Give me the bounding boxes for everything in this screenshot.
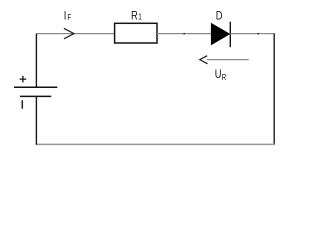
battery plus sign [20, 76, 27, 83]
wire: right vertical [273, 34, 275, 145]
battery negative plate [20, 95, 51, 97]
node dot on wire [257, 33, 259, 35]
wire: left vertical upper (corner to battery) [35, 34, 37, 88]
wire: bottom horizontal [36, 143, 275, 145]
wire: top-left horizontal segment (battery to resistor) [36, 33, 114, 35]
diode cathode bar [229, 22, 231, 48]
node dot on wire [183, 33, 185, 35]
wire: diode to top-right corner [230, 33, 274, 35]
battery minus sign (rotated, vertical bar) [21, 100, 23, 108]
wire: resistor to diode [157, 33, 211, 35]
svg-text:R: R [222, 72, 227, 82]
diode D triangle [211, 23, 230, 46]
svg-text:F: F [67, 12, 71, 22]
wire: left vertical lower (battery to bottom) [35, 96, 37, 144]
UR arrow (pointing left) [207, 59, 249, 61]
resistor R1 [115, 23, 157, 43]
svg-text:R: R [131, 9, 138, 22]
svg-text:1: 1 [138, 12, 142, 22]
battery positive plate [14, 86, 57, 88]
svg-text:U: U [215, 68, 222, 81]
svg-text:D: D [216, 9, 223, 22]
current arrow chevron IF [64, 28, 74, 39]
svg-text:I: I [64, 10, 67, 23]
